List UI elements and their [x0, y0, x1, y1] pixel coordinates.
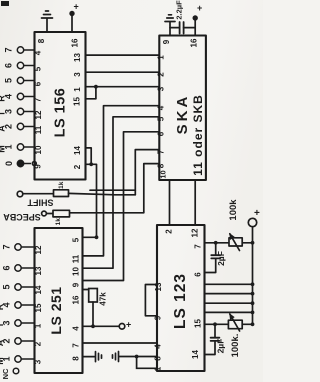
wire R1 to bus — [69, 193, 136, 194]
connector SPECBA circle — [42, 211, 47, 216]
IC U3 LS251 body — [35, 228, 83, 373]
svg-text:SPECBA: SPECBA — [3, 212, 41, 222]
svg-text:5: 5 — [72, 237, 81, 242]
wire ladder3 — [205, 302, 253, 304]
svg-text:M: M — [0, 357, 5, 365]
wire U4.7 to bus — [205, 242, 253, 244]
connector M5 — [15, 284, 21, 290]
svg-text:LS 123: LS 123 — [172, 273, 189, 329]
connector supply plus circle — [119, 324, 125, 330]
svg-text:4: 4 — [34, 50, 43, 55]
wire U3.4 to supply — [83, 325, 120, 327]
pot P2 arrow — [230, 314, 240, 331]
svg-text:4: 4 — [72, 326, 81, 331]
svg-text:16: 16 — [190, 38, 199, 47]
connector M2 — [15, 338, 21, 344]
svg-text:12: 12 — [34, 245, 43, 254]
wire plus bus — [252, 227, 254, 325]
svg-text:T: T — [0, 322, 5, 328]
svg-text:M: M — [0, 145, 7, 153]
svg-text:+: + — [126, 320, 131, 330]
connector M1 — [15, 356, 21, 362]
svg-text:6: 6 — [157, 131, 166, 136]
wire U1.1 to U2.3 — [86, 86, 160, 88]
connector MATR1 — [17, 144, 23, 150]
capacitor C3 plates — [211, 338, 220, 341]
connector SHIFT circle — [17, 191, 23, 197]
svg-text:9: 9 — [34, 164, 43, 169]
connector supply O+ top right — [248, 218, 256, 226]
wire ladder4 — [205, 311, 253, 313]
ground at U2 pin9 — [165, 15, 175, 28]
svg-text:2: 2 — [157, 72, 166, 77]
svg-text:15: 15 — [73, 97, 82, 106]
resistor R3 47k body — [89, 289, 98, 303]
supply dot U1 — [69, 11, 74, 16]
svg-text:11: 11 — [72, 254, 81, 263]
connector M3 — [15, 320, 21, 326]
connector M6 — [15, 265, 21, 271]
ground G4 — [113, 352, 119, 362]
wire R3 to +node — [92, 302, 94, 326]
connector NC — [13, 368, 19, 374]
svg-text:A: A — [0, 339, 5, 346]
wire U3.7 to U4.4 — [83, 342, 158, 344]
svg-text:7: 7 — [4, 47, 14, 52]
svg-text:6: 6 — [4, 63, 14, 68]
capacitor C1 2.2uF wires at U2 top — [170, 28, 195, 36]
wire U2.7 down to shift line — [135, 150, 159, 195]
wire U2.5 to U3.10 — [83, 117, 160, 268]
svg-text:5: 5 — [4, 78, 14, 83]
svg-text:7: 7 — [194, 244, 203, 249]
svg-text:13: 13 — [154, 282, 163, 291]
wire U2.10 to U4.2 — [169, 180, 171, 225]
svg-text:8: 8 — [37, 38, 46, 43]
svg-text:7: 7 — [34, 97, 43, 102]
svg-text:3: 3 — [34, 359, 43, 364]
svg-text:A: A — [0, 125, 7, 132]
wire ladder2 — [205, 293, 253, 295]
connector MATR0 — [17, 160, 23, 166]
svg-text:SHIFT: SHIFT — [27, 198, 54, 208]
wire U1.15 jog — [86, 87, 96, 99]
svg-text:9: 9 — [72, 282, 81, 287]
svg-text:1: 1 — [34, 323, 43, 328]
svg-text:1: 1 — [73, 87, 82, 92]
svg-text:9: 9 — [162, 39, 171, 44]
wire U1.14 down — [86, 148, 92, 164]
wire shift line A — [90, 189, 135, 191]
svg-text:12: 12 — [191, 228, 200, 237]
svg-text:LS 156: LS 156 — [52, 88, 68, 138]
svg-text:7: 7 — [2, 244, 12, 249]
capacitor C2 plates — [211, 255, 220, 258]
svg-text:5: 5 — [157, 116, 166, 121]
ground at U1 pin8 — [42, 11, 53, 32]
potentiometer P2 100k body — [228, 320, 242, 329]
wire U2.8 to specba line — [70, 164, 160, 213]
svg-text:3: 3 — [157, 86, 166, 91]
svg-text:7: 7 — [72, 343, 81, 348]
svg-text:2: 2 — [165, 229, 174, 234]
resistor R1 1k body — [54, 190, 69, 197]
wire U3.16 to R3 — [83, 289, 89, 291]
svg-text:4: 4 — [157, 105, 166, 110]
connector MATR6 — [17, 62, 23, 68]
supply wire U2 pin16 — [194, 20, 196, 36]
svg-text:4: 4 — [154, 344, 163, 349]
wire U2.6 to U3.9 — [83, 132, 160, 281]
svg-text:14: 14 — [191, 350, 200, 359]
svg-text:0: 0 — [4, 161, 14, 166]
potentiometer P1 100k body — [229, 238, 242, 246]
capacitor C1 plates — [180, 22, 184, 34]
IC U1 LS156 body — [35, 32, 86, 180]
pot P1 arrow — [230, 234, 240, 251]
svg-text:+: + — [197, 3, 202, 13]
svg-text:11 oder SKB: 11 oder SKB — [191, 94, 205, 176]
svg-text:LS 251: LS 251 — [48, 286, 64, 334]
supply dot U2 — [193, 15, 198, 20]
IC U4 LS123 body — [157, 225, 205, 371]
svg-text:15: 15 — [194, 319, 203, 328]
svg-text:1: 1 — [157, 55, 166, 60]
svg-text:1k: 1k — [55, 218, 62, 226]
wire U1.13 to U2.1 — [86, 54, 160, 56]
svg-text:6: 6 — [194, 272, 203, 277]
svg-text:R: R — [0, 95, 7, 102]
wire ladder1 — [205, 283, 253, 285]
IC U2 SKA/SKB body — [159, 36, 206, 181]
connector MATR7 — [17, 47, 23, 53]
connector M4 — [15, 302, 21, 308]
wire U1.3 to U2.2 — [86, 71, 160, 73]
svg-text:8: 8 — [154, 356, 163, 361]
wire U1.2 to U3.5 — [83, 164, 97, 237]
svg-text:2: 2 — [34, 341, 43, 346]
svg-text:8: 8 — [72, 356, 81, 361]
wire SHIFT to R1 — [23, 193, 54, 195]
svg-text:16: 16 — [72, 295, 81, 304]
svg-text:2.2µF: 2.2µF — [175, 0, 184, 20]
svg-text:T: T — [0, 110, 7, 116]
svg-text:NC: NC — [1, 368, 10, 379]
svg-text:100k: 100k — [228, 199, 239, 221]
wire branch to U4.1 — [137, 357, 157, 369]
svg-text:3: 3 — [73, 72, 82, 77]
svg-text:47k: 47k — [99, 292, 108, 306]
connector MATR3 — [17, 108, 23, 114]
svg-text:2: 2 — [73, 164, 82, 169]
svg-text:16: 16 — [71, 38, 80, 47]
connector MATR2 — [17, 123, 23, 129]
node pin9 edge circle — [32, 162, 36, 166]
resistor R2 1k body — [53, 210, 70, 217]
wire SPECBA to R2 — [46, 213, 53, 215]
wire U2.11 to U4.12 — [194, 180, 196, 225]
svg-text:6: 6 — [34, 81, 43, 86]
wire U4.13 to U4.9 loop — [145, 285, 157, 316]
ground G3 — [96, 352, 102, 362]
svg-text:6: 6 — [2, 265, 12, 270]
svg-text:10: 10 — [159, 170, 168, 178]
connector MATR5 — [17, 77, 23, 83]
svg-text:15: 15 — [34, 303, 43, 312]
svg-text:+: + — [74, 2, 79, 12]
svg-text:13: 13 — [73, 53, 82, 62]
svg-text:100k.: 100k. — [230, 334, 241, 358]
svg-text:5: 5 — [2, 284, 12, 289]
svg-text:13: 13 — [34, 266, 43, 275]
connector M7 — [15, 244, 21, 250]
svg-text:1: 1 — [154, 366, 163, 371]
svg-text:SKA: SKA — [174, 94, 191, 135]
capacitor C2 2uF wire — [205, 243, 216, 273]
svg-text:9: 9 — [154, 315, 163, 320]
wire U2.4 to U3.11 — [83, 106, 160, 256]
wire U3.8 to ground — [83, 356, 95, 358]
svg-text:+: + — [254, 208, 260, 219]
capacitor C3 2uF wire — [205, 324, 216, 354]
corner blemish — [1, 1, 9, 6]
svg-text:11: 11 — [34, 125, 43, 134]
svg-text:2µF: 2µF — [215, 339, 225, 354]
svg-text:R: R — [0, 303, 5, 310]
junction dots — [94, 85, 98, 89]
wire G4 to U4.8 — [120, 356, 158, 358]
svg-text:12: 12 — [34, 110, 43, 119]
svg-text:10: 10 — [34, 145, 43, 154]
connector MATR4 — [17, 93, 23, 99]
supply wire U1 pin16 — [71, 16, 73, 33]
svg-text:1k: 1k — [58, 181, 65, 189]
svg-text:10: 10 — [72, 267, 81, 276]
svg-text:5: 5 — [34, 66, 43, 71]
svg-text:8: 8 — [157, 163, 166, 168]
svg-text:2µF: 2µF — [216, 251, 226, 266]
wire U4.15 to bus — [205, 323, 253, 325]
svg-text:7: 7 — [157, 149, 166, 154]
svg-text:14: 14 — [34, 285, 43, 294]
svg-text:14: 14 — [73, 146, 82, 155]
